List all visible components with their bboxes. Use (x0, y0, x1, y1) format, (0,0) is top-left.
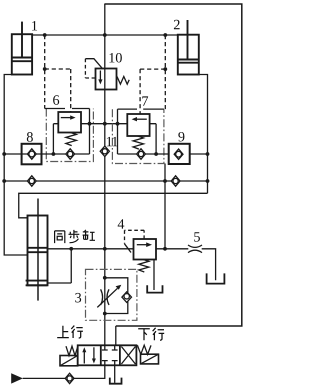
crossed arrows in right box (121, 347, 135, 365)
wire frame of valve 7 assembly (118, 109, 170, 154)
wire bypass branch of valve 3 (105, 278, 128, 314)
right spring of directional valve (137, 345, 151, 354)
wire T port to tank (114, 365, 116, 383)
node cylinder2 branch (163, 33, 167, 37)
node pilot7 branch (163, 67, 167, 71)
arrow inside valve 4 pointing right (137, 244, 147, 246)
label 2 (174, 20, 180, 29)
node valve7 loop right (154, 152, 158, 156)
wire outer return line top/right/bottom (104, 4, 241, 326)
spring of valve 7 (133, 136, 143, 149)
node right rail y181 (206, 179, 210, 183)
spring of valve 6 (66, 133, 76, 146)
counterbalance valve 6 (58, 112, 81, 133)
node valve7 left rail (116, 122, 120, 126)
node valve6 right rail (88, 122, 92, 126)
check valve on line y=181 left (27, 176, 36, 186)
check valve box 9 (169, 144, 190, 164)
node left rail y181 (2, 179, 6, 183)
throttle valve 3 arcs on center line (101, 289, 109, 305)
node center y249 (103, 247, 107, 251)
right solenoid (141, 354, 159, 364)
label 11 (107, 137, 118, 146)
counterbalance valve 7 (127, 114, 149, 136)
wire port line y=123.7 between valves (81, 123, 127, 125)
label 6 (53, 95, 59, 105)
wire y=249 from valve 4 to throttle 5 (156, 249, 216, 280)
wire B-port stub from outer line down to valve (115, 326, 117, 345)
relief valve U10 (96, 69, 117, 90)
node x165 y181 (163, 179, 167, 183)
wire bottom rail right y=154 (190, 153, 208, 155)
spring of U10 (117, 77, 129, 85)
wire check line y=181 (4, 180, 207, 182)
wire cylinder 2 bottom pipe down right side (199, 75, 208, 194)
label up char xing (71, 326, 83, 338)
left spring of directional valve (66, 346, 78, 355)
check valve in valve-6 loop (66, 149, 75, 159)
tank after throttle 5 (207, 273, 225, 283)
node left rail y154 (2, 152, 6, 156)
cylinder 1 (12, 22, 32, 75)
wire bottom rail left y=154 (4, 153, 41, 155)
check valve in box 8 (27, 149, 36, 159)
left solenoid (60, 356, 78, 366)
pilot line from cylinder-1 branch to valve 6 (dashed) (45, 35, 71, 112)
label down char xing (153, 328, 165, 340)
cylinder 2 (178, 20, 199, 75)
label sync cylinder char gang (83, 230, 95, 240)
label sync cylinder text (55, 230, 95, 243)
check valve 11 on center line (100, 146, 109, 156)
label sync cylinder char tong (55, 231, 65, 243)
wire cylinder 1 bottom pipe to left rail down to sync cylinder (4, 75, 27, 256)
arrows in left box of directional valve (83, 352, 85, 364)
label 1 (32, 21, 37, 30)
tank under valve 4 (147, 285, 162, 292)
check valve on pump line (65, 373, 74, 383)
arrow inside valve 6 pointing right (61, 117, 72, 119)
sync cylinder body (26, 216, 48, 286)
wire sync cylinder lower-right port loop (48, 249, 72, 283)
arrow inside U10 pointing down (99, 71, 101, 81)
label down char xia (138, 329, 150, 340)
node valve3 bottom (103, 312, 107, 316)
check valve in valve-3 bypass (122, 292, 132, 303)
label 3 (75, 293, 81, 303)
arrow inside valve 7 pointing left (136, 118, 146, 120)
pilot bend of U10 (85, 59, 102, 69)
sequence valve 4 (134, 239, 157, 260)
label 9 (178, 132, 184, 142)
label up direction (57, 326, 83, 338)
sync cylinder rod (37, 199, 39, 301)
adjustment arrow of valve 3 (97, 288, 117, 307)
label 8 (27, 132, 33, 142)
label up char shang (57, 326, 69, 338)
label 10 (109, 53, 121, 63)
pilot of valve 4 (dashed) (125, 230, 145, 244)
wire P port to pump line (23, 365, 105, 378)
wire main center line (104, 4, 106, 345)
node pilot6 branch (43, 67, 47, 71)
drain pipe of valve 4 to tank (153, 260, 155, 291)
node cylinder1 branch (43, 33, 47, 37)
node right rail y154 (206, 152, 210, 156)
node sync right port (69, 247, 73, 251)
node valve3 top (103, 276, 107, 280)
pilot line from cylinder-2 branch to valve 7 (dashed) (140, 35, 165, 114)
wire sync cylinder right port (48, 248, 134, 250)
throttle 5 arcs (188, 245, 202, 253)
tank under directional valve (110, 378, 122, 384)
label sync cylinder char bu (69, 230, 80, 243)
label down direction (138, 328, 164, 340)
spring of valve 4 (139, 260, 149, 272)
pump source triangle (11, 373, 23, 383)
enclosure around valve 6 assembly (dash-dot) (46, 109, 93, 162)
node center line port line (103, 122, 107, 126)
check valve in valve-7 loop (137, 149, 146, 159)
directional valve body (78, 345, 137, 365)
enclosure around valve 7 assembly (dash-dot) (112, 109, 163, 163)
wire supply line y=35 between cylinders (32, 34, 178, 36)
check valve in box 9 (174, 149, 183, 159)
wire line from enclosure 7 down to y=249 (164, 164, 166, 249)
label 4 (118, 219, 125, 228)
node center line on supply (103, 33, 107, 37)
wire frame of valve 6 assembly (42, 109, 90, 155)
node x165 y249 (163, 247, 167, 251)
enclosure around valve 3 (dash-dot) (86, 269, 137, 320)
label 5 (194, 232, 200, 241)
label 7 (142, 96, 148, 105)
node valve6 loop left (52, 152, 56, 156)
blocked-port T marks in center box (102, 345, 118, 350)
wire line y=193.3 with riser to sync cylinder (19, 193, 208, 218)
check valve on line y=181 right (171, 176, 180, 186)
check valve box 8 (22, 144, 42, 165)
